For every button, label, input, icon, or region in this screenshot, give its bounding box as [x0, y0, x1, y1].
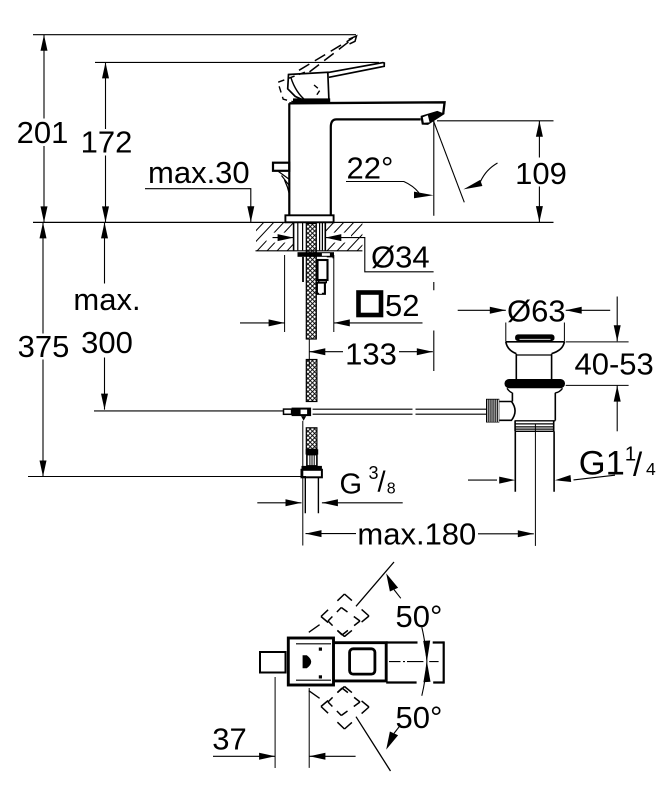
dimension square52 extension lines [285, 255, 334, 332]
dimension O63 arrows [458, 309, 506, 311]
svg-text:max.: max. [73, 282, 140, 317]
svg-text:300: 300 [81, 325, 133, 360]
pop-up rod left section [94, 410, 284, 412]
svg-text:50°: 50° [396, 700, 443, 735]
pop-up rod to drain [313, 409, 486, 414]
dimension 133 line [309, 351, 433, 353]
dimension square52 arrows [240, 322, 285, 324]
drain valve upper body [516, 354, 551, 380]
dimension G1-1/4 left arrow [468, 479, 497, 481]
hose crimp sleeve [306, 449, 319, 454]
handle raised position dashed [299, 38, 353, 72]
plan spout block [334, 643, 386, 681]
dimension 22deg underline and leader [346, 182, 419, 193]
flexible hose braid lower [306, 428, 317, 450]
G3/8 nut [302, 466, 322, 470]
svg-text:37: 37 [212, 722, 246, 757]
water stream line [434, 122, 465, 203]
pop-up actuator knob [273, 163, 289, 171]
drain knurled knob [486, 399, 499, 423]
svg-text:375: 375 [18, 329, 70, 364]
shank tube walls [298, 223, 323, 250]
pop-up rod guide lower [317, 283, 325, 294]
dimension 22deg right arc arrow [481, 163, 498, 182]
svg-text:/: / [378, 467, 387, 499]
dimension 50deg lower arc [422, 662, 427, 696]
wire spout height reference [437, 120, 554, 122]
node stream vertical reference [433, 121, 435, 371]
plan body extension [386, 643, 444, 683]
pop-up rod guide upper [318, 260, 328, 280]
wire countertop deck line [33, 221, 554, 223]
drain valve flange [506, 341, 565, 343]
rod clevis body [292, 408, 312, 417]
dimension max.30 leader [145, 189, 251, 223]
drain coupling nut [515, 424, 554, 431]
swivel diagonal lower [309, 691, 391, 771]
handle swivel dashed square lower [309, 662, 427, 772]
plan handle D mark [303, 655, 312, 668]
node centerline in hose gap [308, 340, 310, 368]
dimension 201 line [43, 35, 45, 223]
shank left wall below washer [302, 257, 304, 282]
plan inner detail lines [296, 644, 331, 680]
dimension O63 extension lines [506, 323, 565, 342]
spout aerator [421, 111, 445, 125]
faucet handle body [288, 72, 329, 102]
handle rotated body dashed [278, 72, 305, 103]
plan bowtie arrows [423, 641, 430, 662]
drain valve rubber seal [505, 379, 566, 388]
svg-text:109: 109 [515, 156, 567, 191]
connection tube [305, 477, 318, 513]
svg-text:Ø63: Ø63 [507, 293, 566, 328]
node drain centerline [534, 425, 536, 546]
plan centerline [389, 661, 439, 663]
wire handle-top reference line (172 datum) [95, 61, 379, 63]
dimension 40-53 arrows [616, 297, 618, 342]
drain body under knob [515, 420, 556, 422]
wire bottom reference line (hose end datum) [28, 476, 306, 478]
svg-text:max.180: max.180 [357, 516, 476, 551]
drain valve plug cap [515, 334, 554, 341]
faucet cartridge joint band [293, 98, 330, 102]
svg-text:50°: 50° [396, 599, 443, 634]
faucet handle blade [328, 63, 385, 78]
svg-text:Ø34: Ø34 [371, 240, 430, 275]
svg-text:G1: G1 [579, 445, 625, 483]
svg-text:max.30: max.30 [148, 155, 250, 190]
dimension 37 extension lines [275, 677, 309, 768]
dimension max.180 arrows [306, 533, 357, 535]
pop-up rod guide collar [319, 280, 327, 283]
plan handle block [288, 638, 333, 685]
faucet body outline [289, 102, 444, 114]
dimension 109 line [538, 121, 540, 222]
dimension max.300 line [104, 222, 106, 409]
plan spout square [350, 649, 375, 674]
svg-text:8: 8 [387, 481, 396, 498]
dimension O34 arrows and label leader [273, 237, 294, 239]
mounting washer [298, 252, 335, 257]
svg-text:40-53: 40-53 [575, 346, 654, 381]
dimension 375 line [42, 222, 44, 476]
svg-text:/: / [633, 446, 643, 483]
plan lever tab [260, 652, 286, 673]
svg-text:172: 172 [81, 125, 133, 160]
drain valve cone [506, 342, 565, 354]
deck hatching left [226, 220, 336, 252]
handle front edge line [291, 78, 307, 102]
drain tailpiece [515, 431, 554, 492]
svg-text:22°: 22° [347, 151, 394, 186]
faucet base flange [285, 215, 333, 222]
svg-text:201: 201 [17, 115, 69, 150]
dimension 37 arrows [213, 755, 275, 757]
svg-text:4: 4 [646, 459, 656, 479]
svg-text:G: G [340, 469, 363, 501]
swivel diagonal upper [309, 562, 394, 632]
wire deck underside line [256, 250, 363, 252]
svg-text:133: 133 [345, 337, 397, 372]
deck hole walls [294, 222, 326, 250]
svg-text:52: 52 [385, 288, 419, 323]
drain knob stem [499, 402, 515, 421]
wire top reference line (201 datum) [33, 34, 356, 36]
dimension 40-53 extension lines [566, 342, 629, 386]
plan screw dots [319, 648, 322, 651]
handle swivel dashed square upper [321, 594, 369, 637]
vertical pull rod extension [302, 421, 304, 546]
deck hatching right [296, 220, 406, 252]
dimension 50deg upper arc [422, 627, 427, 661]
flexible hose braid middle [306, 360, 317, 402]
drain valve lower body [507, 388, 563, 393]
dimension G1-1/4 leader [574, 475, 616, 480]
hose fitting [307, 455, 317, 466]
dimension 172 line [105, 62, 107, 222]
dimension G3/8 arrows [257, 502, 301, 504]
rod clevis collar [284, 409, 292, 414]
hatch clearance around O34 arrows [267, 233, 294, 243]
square symbol [359, 293, 382, 316]
flexible hose braid upper [306, 224, 316, 340]
